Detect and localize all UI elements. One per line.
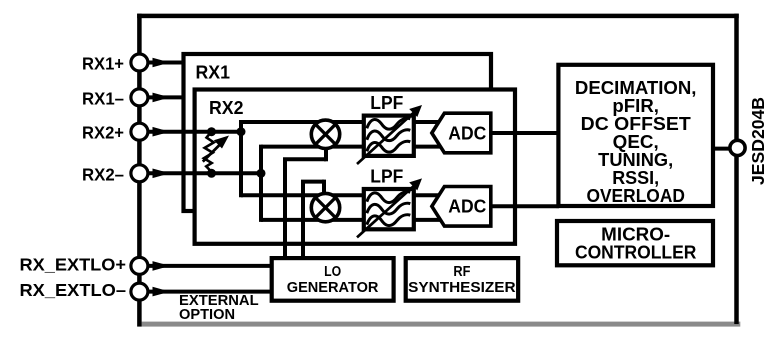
wire LO1 vertical riser [283,159,287,259]
svg-text:OPTION: OPTION [179,307,235,323]
node RX2+ / attenuator junction [207,127,216,136]
block microcontroller [557,221,713,265]
LPF1 wave 1 [367,118,411,129]
svg-text:LPF: LPF [370,92,403,113]
block digital signal processing [558,65,713,206]
arrow RX_EXTLO+ [153,261,171,271]
wire vertical branch from RX2+ node [239,120,243,197]
svg-text:QEC,: QEC, [613,132,659,152]
LPF1 wave 3 [367,141,411,152]
LPF2 wave 2 [367,203,411,214]
chip boundary left border [137,14,142,327]
svg-text:ADC: ADC [448,197,486,217]
pin JESD204B [730,140,745,155]
svg-text:TUNING,: TUNING, [598,150,673,170]
node RX2- / mixer branch junction [257,169,266,178]
arrow RX2- [153,169,171,179]
arrow RX1- [153,93,171,103]
pin RX1+ [131,54,148,71]
svg-text:DC OFFSET: DC OFFSET [581,114,691,134]
chip bottom shadow (gray) [142,322,741,327]
svg-text:LO: LO [324,264,341,280]
wire RX2- input [139,171,263,175]
LPF2 tuning arrow [357,184,416,237]
LPF1 box [364,116,414,156]
wire RX2+ input [139,130,243,134]
block LO generator [272,258,394,301]
block RX2 [195,90,515,244]
svg-text:RX_EXTLO+: RX_EXTLO+ [20,254,127,274]
wire mixer2 input - (to LPF2 lower) [261,218,450,222]
LPF1 wave 2 [367,130,411,141]
node RX2- / attenuator junction [207,169,216,178]
wire RX_EXTLO+ input [139,264,273,268]
variable attenuator R (zigzag) [204,132,214,172]
wire LO2 horizontal [301,180,324,184]
wire mixer1 input - (to LPF1 lower) [261,145,450,149]
ADC1 (pentagon) [432,113,491,153]
LPF2 wave 1 [367,192,411,203]
chip boundary top border [137,14,739,19]
svg-text:RX_EXTLO–: RX_EXTLO– [20,280,127,300]
svg-text:RSSI,: RSSI, [612,168,659,188]
pin RX1- [131,89,148,106]
svg-text:SYNTHESIZER: SYNTHESIZER [408,280,516,296]
svg-text:RF: RF [453,264,470,280]
pin RX2- [131,165,148,182]
arrow RX2+ [153,127,171,137]
chip boundary right border [734,14,739,324]
mixer M2 [311,193,339,221]
LPF2 box [364,189,414,229]
wire ADC2 output [491,204,559,208]
wire mixer1 input + (to LPF1 upper) [241,120,450,124]
svg-text:RX1: RX1 [196,61,231,82]
pin RX_EXTLO- [131,283,148,300]
svg-text:pFIR,: pFIR, [612,96,659,116]
pin RX_EXTLO+ [131,257,148,274]
wire RX1- input [139,95,185,99]
arrow RX1+ [153,58,171,68]
variable attenuator arrow [203,144,221,162]
svg-text:RX2–: RX2– [82,164,124,184]
svg-text:CONTROLLER: CONTROLLER [575,243,697,263]
wire LO2 vertical riser [301,182,305,259]
LPF1 tuning arrow [357,111,416,164]
svg-text:RX1+: RX1+ [82,54,124,74]
wire LO2 into mixer2 top [322,180,326,201]
wire JESD output [713,147,732,151]
svg-text:RX2: RX2 [209,97,244,118]
svg-text:OVERLOAD: OVERLOAD [586,186,685,206]
wire RX_EXTLO- input [139,290,273,294]
block RX1 [184,54,492,211]
svg-text:MICRO-: MICRO- [601,225,670,245]
svg-text:RX2+: RX2+ [82,123,124,143]
wire RX1+ input [139,61,185,65]
wire vertical branch from RX2- node [259,145,263,222]
wire ADC1 output [491,131,559,135]
svg-text:RX1–: RX1– [82,88,124,108]
svg-text:DECIMATION,: DECIMATION, [575,78,697,98]
node RX2+ / mixer branch junction [237,127,246,136]
svg-text:ADC: ADC [448,123,486,143]
svg-text:LPF: LPF [370,165,403,186]
svg-text:JESD204B: JESD204B [748,97,768,185]
pin RX2+ [131,123,148,140]
block RF synthesizer [406,258,518,301]
wire LO1 horizontal [283,157,326,161]
ADC2 (pentagon) [432,187,491,227]
svg-text:GENERATOR: GENERATOR [287,280,379,296]
arrow RX_EXTLO- [153,287,171,297]
wire LO1 into mixer1 bottom [324,140,328,161]
wire mixer2 input + (to LPF2 upper) [241,193,450,197]
LPF2 wave 3 [367,215,411,226]
mixer M1 [311,120,339,148]
